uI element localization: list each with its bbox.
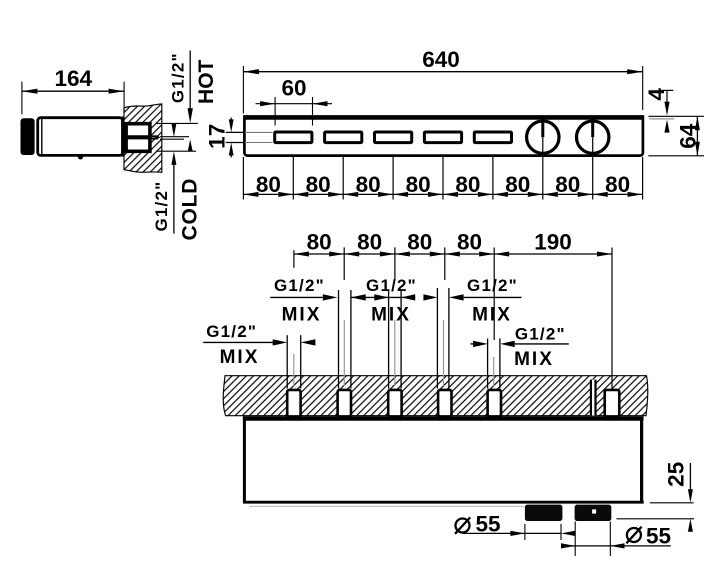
plan view: pipe centerline p2 <box>343 320 345 386</box>
plan view: fixing pin <box>590 380 597 416</box>
dimension 25 line <box>689 463 691 490</box>
label B leader <box>270 296 323 298</box>
dimension 60 extension lines <box>274 97 276 126</box>
svg-text:17: 17 <box>204 124 229 149</box>
plan view: outlet stub 3 <box>388 390 401 417</box>
dimension 64 line <box>696 116 698 156</box>
plan view: pipe lines p4 <box>436 288 438 389</box>
plan view: bar right edge <box>640 417 643 503</box>
dimension 4 extension line dark <box>649 115 705 117</box>
dimension 64 extension line <box>648 155 704 157</box>
svg-text:COLD: COLD <box>179 178 202 241</box>
svg-text:80: 80 <box>306 172 331 197</box>
side view: stem lower extension line <box>160 138 184 140</box>
svg-text:80: 80 <box>555 172 580 197</box>
svg-text:G1/2": G1/2" <box>168 52 187 103</box>
side view: bottom screw bump <box>78 154 83 159</box>
plan chain line p5 long <box>493 248 495 341</box>
diameter 55 left dim line <box>463 532 562 534</box>
svg-text:MIX: MIX <box>371 305 411 326</box>
svg-text:80: 80 <box>357 229 382 254</box>
plan chain dim line <box>294 253 612 255</box>
plan view: knob 2 <box>575 505 612 521</box>
svg-text:80: 80 <box>505 172 530 197</box>
dimension 17 slot lines gray <box>245 131 273 133</box>
side view: handle knob <box>21 118 35 155</box>
dimension 164 extension lines <box>21 82 23 115</box>
svg-text:G1/2": G1/2" <box>152 181 171 232</box>
plan view: pipe centerline p1 <box>293 354 295 386</box>
svg-text:164: 164 <box>55 66 93 91</box>
front view: slot 3 <box>375 132 412 143</box>
svg-text:MIX: MIX <box>514 349 554 370</box>
plan view: bar left edge <box>243 417 246 502</box>
svg-text:80: 80 <box>356 172 381 197</box>
diameter symbol left <box>456 519 470 533</box>
plan chain line p6 long <box>611 248 613 390</box>
svg-text:80: 80 <box>256 172 281 197</box>
label A leader <box>203 341 274 343</box>
side view: body joint line <box>41 119 43 156</box>
plan view: pipe lines p2 <box>338 290 340 389</box>
front view: knob circle 2 <box>577 121 609 153</box>
diameter symbol right <box>627 528 641 542</box>
plan view: outlet stub 6 <box>605 390 620 417</box>
plan view: bar bottom edge <box>243 501 644 504</box>
side view: mixer body <box>38 118 123 156</box>
knob extension ticks <box>524 524 526 540</box>
front view: slot 4 <box>424 132 461 143</box>
svg-text:80: 80 <box>605 172 630 197</box>
plan view: pipe centerline p3 <box>394 320 396 386</box>
dimension 4 line <box>661 89 674 91</box>
side view: stem upper extension line <box>160 136 189 138</box>
svg-text:MIX: MIX <box>282 305 322 326</box>
side view: wall section (hatched) <box>124 104 162 172</box>
plan view: pipe centerline p4 <box>443 320 445 386</box>
svg-text:MIX: MIX <box>472 305 512 326</box>
dimension 164 line <box>22 90 124 92</box>
dimension 60 line <box>256 103 276 105</box>
front view: slot 1 <box>275 132 312 143</box>
plan view: knob 1 <box>525 505 563 521</box>
diameter 55 right dim line <box>561 545 575 547</box>
cold hot-side arrow <box>171 124 176 138</box>
front view bottom chain dim line <box>243 193 642 195</box>
side view: cold inlet extension line <box>156 150 196 152</box>
plan view: pipe centerline p5 <box>493 357 495 386</box>
svg-text:55: 55 <box>646 524 671 549</box>
svg-text:80: 80 <box>406 172 431 197</box>
svg-text:G1/2": G1/2" <box>274 276 325 295</box>
dimension 17 line <box>230 118 232 120</box>
plan chain tick p3 <box>394 247 396 280</box>
svg-text:G1/2": G1/2" <box>467 276 518 295</box>
svg-text:80: 80 <box>407 229 432 254</box>
svg-text:25: 25 <box>664 462 689 487</box>
svg-text:HOT: HOT <box>195 59 218 104</box>
label C underline <box>351 296 415 298</box>
plan chain tick p4 <box>444 247 446 280</box>
front view bottom chain ticks <box>242 157 244 200</box>
side view: hot inlet extension line <box>156 122 198 124</box>
plan view: bar top edge <box>243 416 644 420</box>
side view: mix outlet stem <box>150 135 158 137</box>
svg-text:80: 80 <box>307 229 332 254</box>
plan view: outlet stub 5 <box>488 390 501 417</box>
plan chain tick p2 <box>343 247 345 280</box>
dimension 640 extension lines <box>242 66 244 114</box>
hot leader line <box>189 51 191 110</box>
svg-text:G1/2": G1/2" <box>366 276 417 295</box>
hot counter arrow <box>188 140 193 152</box>
svg-text:640: 640 <box>422 47 460 72</box>
svg-text:190: 190 <box>534 229 572 254</box>
svg-text:4: 4 <box>644 88 669 101</box>
plan view: pipe lines p1 <box>286 335 288 388</box>
plan view: pipe lines p5 <box>487 339 489 389</box>
label D underline <box>449 294 464 300</box>
side view: body right edge <box>121 117 124 157</box>
dimension 640 line <box>243 71 642 73</box>
cold leader line <box>171 151 176 165</box>
plan view: faint lower line <box>249 505 524 507</box>
front view: slot 5 <box>474 132 511 143</box>
plan view: outlet stub 4 <box>438 390 451 417</box>
plan chain tick p1 <box>293 250 295 267</box>
front view: knob circle 1 <box>527 121 559 153</box>
svg-text:80: 80 <box>455 172 480 197</box>
svg-text:60: 60 <box>281 76 306 101</box>
plan view: outlet stub 2 <box>338 390 351 417</box>
plan view: pipe lines p3 <box>388 291 390 389</box>
label E leader <box>471 343 474 345</box>
plan view: wall band (hatched) <box>223 376 648 416</box>
front view: bar top thick edge <box>243 115 644 120</box>
dimension 4 extension line gray <box>649 118 674 120</box>
svg-text:G1/2": G1/2" <box>515 324 566 343</box>
dimension 17 extension lines <box>226 131 244 133</box>
front view: slot 2 <box>325 132 362 143</box>
plan view: outlet stub 1 <box>287 390 300 417</box>
side view: recessed mounting body <box>126 124 150 152</box>
front view: mixer bar <box>244 118 643 156</box>
svg-text:80: 80 <box>457 229 482 254</box>
side view: mounting body middle bar <box>125 135 151 139</box>
svg-text:G1/2": G1/2" <box>206 322 257 341</box>
svg-text:MIX: MIX <box>220 347 260 368</box>
dimension 25 extension lines <box>650 502 694 504</box>
svg-text:64: 64 <box>675 123 700 149</box>
